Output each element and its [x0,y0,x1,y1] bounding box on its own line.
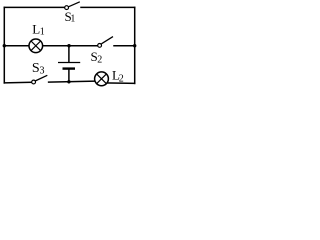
svg-text:2: 2 [119,74,124,85]
svg-text:1: 1 [40,27,45,38]
svg-text:1: 1 [70,14,75,25]
svg-text:2: 2 [97,54,102,65]
svg-text:3: 3 [40,65,45,76]
